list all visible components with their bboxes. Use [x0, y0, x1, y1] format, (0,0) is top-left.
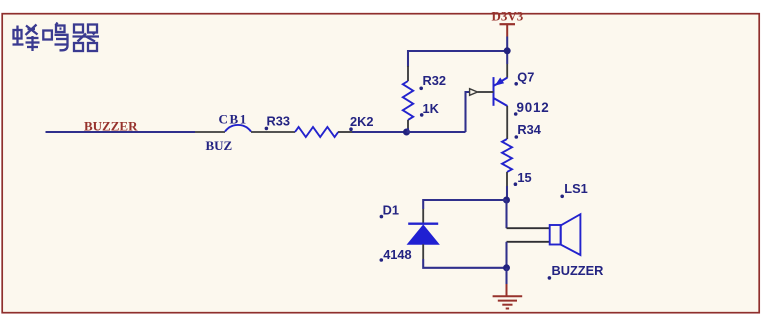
component CB1 arc [225, 125, 251, 132]
pin emitter vertical [506, 64, 508, 78]
wire speaker branch lower [505, 242, 507, 268]
svg-text:BUZZER: BUZZER [552, 263, 604, 278]
base pin with arrow [478, 91, 494, 93]
pin speaker bottom [507, 241, 550, 243]
node junction mid [503, 197, 510, 204]
wire junction to base riser [407, 131, 466, 133]
wire riser up [466, 92, 470, 132]
resistor R34 [502, 139, 512, 172]
wire main horizontal left [46, 131, 196, 133]
node junction R32 bottom [403, 129, 410, 136]
svg-text:R32: R32 [423, 73, 446, 88]
transistor Q7 (PNP 9012) [494, 77, 508, 106]
wire speaker branch upper [505, 200, 507, 228]
pin diode top [422, 209, 424, 224]
pin diode bottom [422, 244, 424, 259]
svg-text:D3V3: D3V3 [492, 9, 524, 24]
node junction bottom [503, 264, 510, 271]
char MING 鸣 [43, 23, 68, 51]
pin speaker top [507, 227, 550, 229]
wire diode bottom [423, 259, 506, 268]
node junction rail [504, 47, 511, 54]
svg-text:9012: 9012 [517, 100, 550, 115]
svg-text:R33: R33 [267, 114, 290, 129]
svg-text:LS1: LS1 [564, 181, 587, 196]
speaker LS1 horn [561, 214, 581, 255]
svg-text:CB1: CB1 [219, 112, 248, 127]
pin CB1 right / R33 left [251, 131, 295, 133]
diode D1 (cathode bar + triangle) [408, 222, 438, 224]
pin collector to R34 [506, 106, 508, 139]
title 蜂鸣器 (hand-drawn glyphs) [13, 23, 100, 52]
char FENG 蜂 [13, 25, 40, 52]
svg-text:4148: 4148 [383, 247, 411, 262]
pin R34 bottom [506, 172, 508, 186]
svg-text:D1: D1 [383, 202, 399, 217]
svg-text:Q7: Q7 [517, 70, 534, 85]
char QI 器 [73, 25, 100, 52]
pin R33 right [338, 131, 352, 133]
ground symbol [493, 284, 523, 309]
pin R32 bottom [407, 120, 409, 129]
emitter arrow [495, 78, 504, 86]
svg-text:1K: 1K [423, 101, 440, 116]
wire R32 top corner and rail [408, 51, 507, 67]
speaker LS1 body [550, 225, 561, 245]
pin CB1 left [195, 131, 225, 133]
wire to ground [505, 268, 507, 284]
svg-text:15: 15 [517, 170, 531, 185]
wire diode top [423, 200, 506, 209]
resistor R32 [403, 81, 413, 120]
svg-text:R34: R34 [517, 122, 541, 137]
pin R32 top [407, 66, 409, 81]
wire to junction [352, 131, 407, 133]
svg-text:2K2: 2K2 [350, 114, 373, 129]
resistor R33 [295, 127, 338, 137]
wire power to rail [506, 37, 508, 65]
svg-text:BUZ: BUZ [206, 138, 233, 153]
